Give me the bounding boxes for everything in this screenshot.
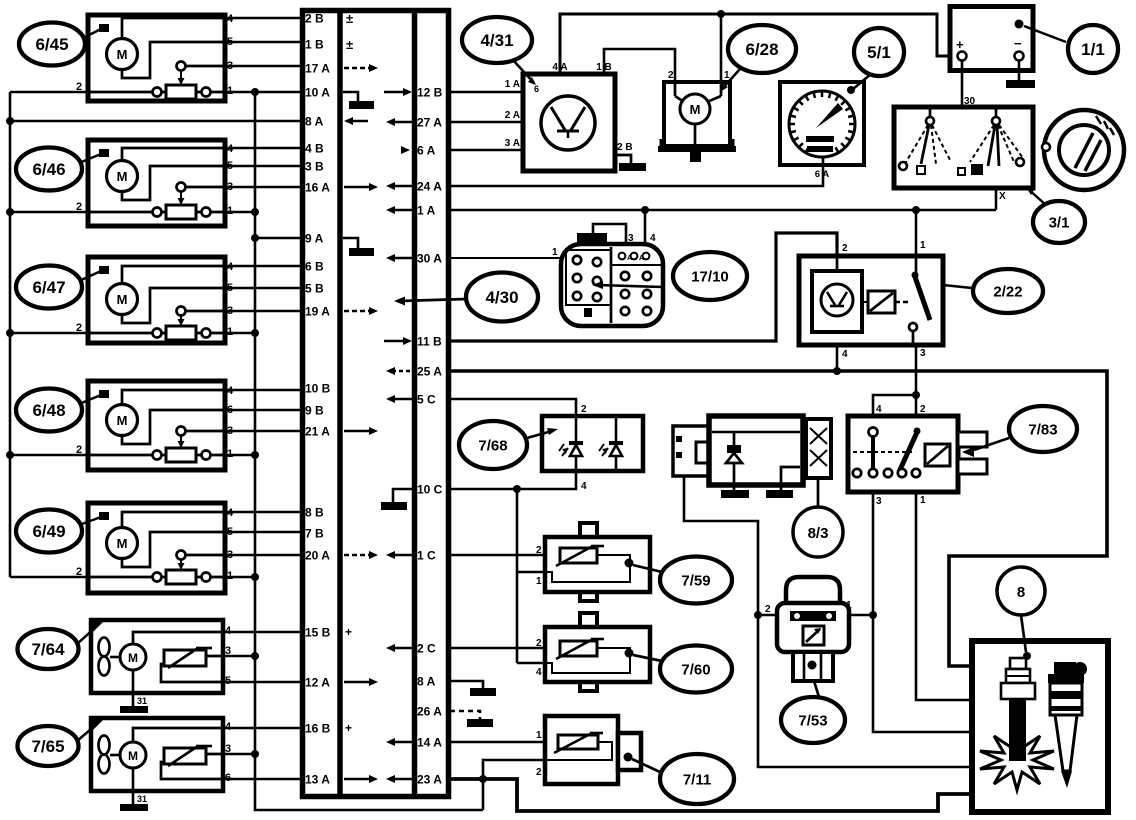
thermistor element 7/60 bbox=[560, 641, 597, 656]
component label oval 6/47 bbox=[16, 266, 82, 309]
component label oval 7/59 bbox=[660, 557, 732, 604]
pointer line 6/48 oval to box bbox=[79, 395, 101, 404]
junction dots on supply bus bbox=[6, 117, 14, 125]
component label oval 7/64 bbox=[18, 629, 79, 669]
actuator motor 6/47 box bbox=[88, 257, 225, 343]
junction 1A wire to ignition coil connector 17/10 pin 4 bbox=[641, 206, 649, 214]
ignition power stage 8/3 main box bbox=[709, 416, 803, 485]
svg-text:7/65: 7/65 bbox=[31, 737, 64, 756]
wire 6/49 pin1 to sensor-ground bus bbox=[225, 576, 255, 579]
ground symbol at ECU pin 10C bbox=[393, 489, 412, 502]
svg-text:1: 1 bbox=[552, 247, 558, 258]
17/10 inner divider bbox=[610, 247, 613, 323]
jumper 7/83 pin 4 to pin 2 feed bbox=[873, 395, 916, 416]
wire drop to 7/60 pin 4 bbox=[517, 662, 552, 665]
wire supply bus to ECU pin 8A bbox=[10, 120, 302, 123]
pointer dot 7/60 bbox=[625, 649, 634, 658]
wires 7/64 to ECU 15B / 12A and bus bbox=[223, 631, 302, 634]
component label oval 4/31 bbox=[462, 17, 532, 63]
spark plug electrode bbox=[1009, 699, 1026, 761]
svg-text:4: 4 bbox=[876, 404, 882, 415]
component label oval 6/45 bbox=[19, 23, 85, 66]
junction at knock sensor 7/53 pin 2 bbox=[754, 611, 762, 619]
motor M of 6/45 bbox=[122, 18, 225, 39]
pointer arrow 7/83 bbox=[962, 447, 974, 457]
7/53 terminal strip bbox=[790, 611, 836, 621]
inner link 7/59 bbox=[545, 555, 630, 582]
pointer arrow 4/30 into ECU bbox=[400, 299, 466, 301]
svg-text:16 A: 16 A bbox=[305, 181, 330, 195]
svg-text:8: 8 bbox=[1017, 584, 1025, 601]
svg-text:M: M bbox=[117, 292, 128, 307]
svg-text:7/68: 7/68 bbox=[478, 437, 507, 454]
wire 7/53 pins across (pin2 to pin1) bbox=[758, 614, 873, 617]
svg-text:2 B: 2 B bbox=[617, 142, 633, 153]
wire 6/46 pin2 to supply bus bbox=[10, 211, 88, 214]
potentiometer wiper of 6/48 to pin 3 bbox=[177, 427, 186, 436]
ground of 7/64 fan motor bbox=[132, 670, 135, 706]
wire 8/3 shield pin down to 7/53 pin 2 and spark box bbox=[684, 476, 972, 767]
pointer line 7/53 bbox=[814, 681, 819, 697]
svg-text:26 A: 26 A bbox=[417, 705, 442, 719]
svg-text:25 A: 25 A bbox=[417, 365, 442, 379]
svg-text:M: M bbox=[690, 102, 701, 117]
potentiometer wiper of 6/46 to pin 3 bbox=[177, 183, 186, 192]
8/3 right connector with hatch bbox=[806, 419, 831, 478]
wire 6/46 pin1 to sensor-ground bus bbox=[225, 211, 255, 214]
connector inner wall right column bbox=[412, 10, 418, 796]
svg-text:2/22: 2/22 bbox=[993, 283, 1022, 300]
svg-text:+: + bbox=[956, 37, 964, 52]
battery 1/1 bbox=[950, 7, 1033, 71]
svg-text:M: M bbox=[117, 413, 128, 428]
pointer line 8/3 oval bbox=[817, 478, 820, 507]
temperature sensor 7/11 bbox=[545, 716, 618, 784]
fan motor M of 7/65 bbox=[133, 728, 223, 742]
svg-text:6: 6 bbox=[534, 84, 539, 94]
7/83 fixed contact bbox=[869, 428, 878, 437]
svg-text:6 A: 6 A bbox=[815, 169, 830, 180]
svg-text:4/30: 4/30 bbox=[485, 288, 518, 307]
potentiometer wiper of 6/47 to pin 3 bbox=[177, 307, 186, 316]
pointer line 7/65 oval to box bbox=[77, 724, 97, 741]
idle air valve 4/31 bbox=[523, 74, 615, 171]
svg-text:A: A bbox=[639, 255, 644, 262]
ground symbol at ECU pin 10A bbox=[343, 92, 358, 101]
component label oval 6/28 bbox=[728, 25, 796, 73]
temperature sensor 7/59 bbox=[580, 523, 597, 539]
svg-text:20 A: 20 A bbox=[305, 549, 330, 563]
potentiometer of 6/48 bbox=[88, 454, 225, 457]
17/10 pointer arrow bbox=[598, 285, 663, 287]
wire ECU 23A to bottom shield rail bbox=[450, 779, 972, 811]
2/22 switch contact bbox=[915, 256, 918, 273]
svg-text:M: M bbox=[128, 749, 138, 763]
svg-text:1: 1 bbox=[536, 576, 542, 587]
7/83 coil bbox=[925, 444, 950, 466]
svg-text:2 A: 2 A bbox=[505, 110, 520, 121]
svg-text:16 B: 16 B bbox=[305, 722, 331, 736]
wire 6/45 pin1 to ECU 10A with bus junction bbox=[225, 91, 302, 94]
dashed wire ECU 26A to ground bbox=[450, 711, 480, 719]
6/48 oval pointer terminus bbox=[99, 390, 109, 398]
svg-text:7/59: 7/59 bbox=[681, 572, 710, 589]
svg-text:5/1: 5/1 bbox=[867, 43, 891, 62]
wire 6/49 pin2 to supply bus bbox=[10, 576, 88, 579]
svg-text:4: 4 bbox=[536, 667, 542, 678]
battery minus to ground bbox=[1018, 60, 1021, 80]
wire ECU 2C to temp sensor 7/60 pin 2 bbox=[450, 647, 560, 650]
wires 6/47 pins to ECU bbox=[225, 265, 302, 268]
svg-text:27 A: 27 A bbox=[417, 116, 442, 130]
wire motor minus to pin 5 of 6/45 bbox=[122, 42, 225, 78]
wire 6/47 pin2 to supply bus bbox=[10, 332, 88, 335]
svg-text:8/3: 8/3 bbox=[808, 525, 829, 542]
diode symbols in 7/68 bbox=[569, 441, 583, 445]
7/53 lower connector bbox=[793, 652, 833, 681]
pointer line 2/22 oval to box bbox=[943, 285, 972, 288]
svg-text:M: M bbox=[117, 169, 128, 184]
component label oval 7/11 bbox=[660, 754, 734, 804]
ground at ECU 26A bbox=[467, 719, 493, 727]
potentiometer of 6/45 bbox=[88, 91, 225, 94]
potentiometer of 6/46 bbox=[88, 211, 225, 214]
svg-text:2: 2 bbox=[536, 767, 542, 778]
svg-text:3 A: 3 A bbox=[505, 138, 520, 149]
svg-text:1: 1 bbox=[846, 600, 852, 611]
pointer line 1/1 oval to battery bbox=[1024, 26, 1066, 42]
6/45 oval pointer terminus bbox=[99, 24, 109, 32]
wire 6/48 pin1 to sensor-ground bus bbox=[225, 454, 255, 457]
wire ECU 24A to gauge 5/1 bbox=[450, 165, 823, 186]
component label oval 7/68 bbox=[459, 421, 527, 469]
wires 6/49 pins to ECU bbox=[225, 511, 302, 514]
pointer line 3/1 oval to box bbox=[1028, 189, 1046, 205]
svg-text:±: ± bbox=[346, 37, 353, 52]
svg-text:13 A: 13 A bbox=[305, 773, 330, 787]
wire thermistor to pin 6 of 7/65 bbox=[161, 762, 223, 779]
pointer line 6/46 oval to box bbox=[79, 154, 101, 163]
svg-text:2: 2 bbox=[920, 404, 926, 415]
ignition switch 3/1 bbox=[894, 107, 1033, 188]
6/47 oval pointer terminus bbox=[99, 266, 109, 274]
junction 25A wire to relay 2/22 pin 4 bbox=[833, 367, 841, 375]
switch wafer A bbox=[929, 107, 932, 117]
4/31 pin 2B to ground bbox=[615, 155, 631, 163]
wire ECU 27A to 4/31 pin 2A bbox=[450, 121, 523, 124]
svg-text:4 A: 4 A bbox=[552, 62, 567, 73]
component label oval 7/65 bbox=[18, 726, 79, 766]
svg-text:M: M bbox=[128, 651, 138, 665]
wire motor minus to pin 5 of 6/47 bbox=[122, 288, 225, 323]
6/46 oval pointer terminus bbox=[99, 149, 109, 157]
switch wafer B bbox=[995, 107, 998, 117]
motor M of 6/28 bbox=[680, 94, 710, 124]
wire ECU 8A (right) to ground bbox=[450, 681, 483, 688]
component label oval 7/83 bbox=[1009, 406, 1077, 452]
component label oval 17/10 bbox=[673, 252, 747, 300]
potentiometer of 6/49 bbox=[88, 576, 225, 579]
wire ECU 30A to 17/10 pin 1 bbox=[450, 257, 561, 259]
junction 1A wire to relay 2/22 pin 1 bbox=[912, 206, 920, 214]
svg-text:17/10: 17/10 bbox=[691, 268, 729, 285]
actuator motor 6/46 box bbox=[88, 140, 225, 226]
pointer line 6/45 oval to box bbox=[83, 29, 101, 38]
radiator fan + thermistor 7/65 box bbox=[91, 718, 223, 791]
wire 6/47 pin1 to sensor-ground bus bbox=[225, 332, 255, 335]
actuator motor 6/48 box bbox=[88, 381, 225, 470]
pointer dot 7/11 bbox=[624, 753, 633, 762]
17/10 bottom-left mark bbox=[584, 308, 592, 317]
2/22 relay coil bbox=[868, 291, 895, 313]
pointer line 6/49 oval to box bbox=[79, 517, 101, 525]
component label oval 7/60 bbox=[660, 646, 732, 693]
battery terminals bbox=[958, 52, 967, 61]
pointer line 6/47 oval to box bbox=[79, 271, 101, 281]
svg-text:−: − bbox=[1014, 36, 1022, 51]
label circle 8 bbox=[997, 567, 1045, 615]
potentiometer wiper of 6/45 to pin 3 bbox=[177, 62, 186, 71]
pointer line 5/1 oval to box bbox=[853, 74, 871, 89]
component label oval 6/46 bbox=[16, 148, 82, 191]
fuel pump 6/28 bbox=[664, 82, 730, 146]
svg-text:2: 2 bbox=[536, 638, 542, 649]
gauge bars 5/1 bbox=[806, 136, 834, 142]
svg-text:15 B: 15 B bbox=[305, 626, 331, 640]
component label oval 2/22 bbox=[973, 269, 1043, 313]
svg-text:7/60: 7/60 bbox=[681, 661, 710, 678]
fan motor M of 7/64 bbox=[133, 632, 223, 644]
svg-text:10 A: 10 A bbox=[305, 86, 330, 100]
svg-text:2: 2 bbox=[581, 404, 587, 415]
svg-text:1 A: 1 A bbox=[417, 204, 436, 218]
sensor supply bus (left, connects pin 2 of 6/45..6/49 and ECU 8A) bbox=[9, 92, 12, 577]
zener diode to ground in 8/3 bbox=[733, 432, 736, 445]
wire ECU 25A to ignition supply (long run to spark box) bbox=[450, 371, 1107, 666]
svg-text:3: 3 bbox=[920, 348, 926, 359]
component label oval 4/30 bbox=[466, 273, 538, 322]
spark star burst bbox=[980, 730, 1054, 790]
wire motor minus to pin 5 of 6/46 bbox=[122, 166, 225, 200]
svg-text:7/83: 7/83 bbox=[1028, 421, 1057, 438]
wires 6/45 pins to ECU bbox=[225, 17, 302, 20]
svg-text:2 B: 2 B bbox=[305, 12, 324, 26]
fan symbol of 7/65 bbox=[99, 736, 110, 755]
svg-text:10 B: 10 B bbox=[305, 382, 331, 396]
svg-text:21 A: 21 A bbox=[305, 425, 330, 439]
sensor ground bus (right of boxes) bbox=[255, 92, 483, 810]
connector inner wall left column bbox=[337, 10, 343, 796]
inner link 7/11 bbox=[545, 742, 612, 760]
thermistor element 7/11 bbox=[558, 735, 598, 749]
svg-text:2: 2 bbox=[765, 604, 771, 615]
svg-text:7/64: 7/64 bbox=[31, 640, 65, 659]
svg-text:6 A: 6 A bbox=[417, 144, 436, 158]
svg-text:3/1: 3/1 bbox=[1049, 214, 1070, 231]
actuator motor 6/49 box bbox=[88, 503, 225, 593]
component label oval 6/48 bbox=[16, 389, 82, 432]
wire ECU 1C to temp sensor 7/59 pin 2 bbox=[450, 554, 560, 557]
svg-text:24 A: 24 A bbox=[417, 180, 442, 194]
wire 6/48 pin2 to supply bus bbox=[10, 454, 88, 457]
wire ECU 6A to 4/31 pin 3A bbox=[450, 149, 523, 152]
component label oval 6/49 bbox=[16, 510, 82, 553]
svg-text:1/1: 1/1 bbox=[1081, 40, 1105, 59]
thermistor of 7/64 bbox=[164, 650, 206, 666]
wire 7/83 pin 1 down to spark box bbox=[916, 492, 972, 700]
svg-text:8 A: 8 A bbox=[417, 675, 436, 689]
svg-text:23 A: 23 A bbox=[417, 773, 442, 787]
svg-text:17 A: 17 A bbox=[305, 62, 330, 76]
junction 10C wire to sensor drop bbox=[513, 485, 521, 493]
svg-text:6/47: 6/47 bbox=[32, 278, 65, 297]
svg-text:12 B: 12 B bbox=[417, 86, 443, 100]
wire motor minus to pin 5 of 6/49 bbox=[122, 532, 225, 567]
7/83 right plug bbox=[958, 432, 987, 447]
spark plug symbol bbox=[1010, 658, 1026, 669]
component label oval 1/1 bbox=[1068, 25, 1118, 73]
pointer line 7/68 oval to box bbox=[527, 431, 552, 438]
svg-text:1: 1 bbox=[920, 240, 926, 251]
wire 7/11 pin 2 tap to 23A net bbox=[483, 760, 545, 810]
svg-text:9 B: 9 B bbox=[305, 404, 324, 418]
6/28 pump base/strainer bbox=[658, 146, 736, 152]
svg-text:6/46: 6/46 bbox=[32, 160, 65, 179]
svg-text:1 B: 1 B bbox=[305, 38, 324, 52]
svg-text:4: 4 bbox=[581, 481, 587, 492]
svg-text:11 B: 11 B bbox=[417, 335, 442, 349]
spark plugs / ignition coil box bbox=[972, 641, 1108, 812]
17/10 top bar and jumper bbox=[577, 233, 607, 242]
temperature sensor 7/60 bbox=[580, 613, 597, 629]
oval 8/3 bbox=[793, 507, 843, 557]
wire ECU 12B to 4/31 pin 1A bbox=[450, 91, 523, 94]
svg-text:30 A: 30 A bbox=[417, 252, 442, 266]
thermistor of 7/65 bbox=[164, 748, 206, 764]
actuator motor 6/45 box bbox=[88, 15, 225, 101]
wire ECU 14A to temp sensor 7/11 pin 1 bbox=[450, 741, 558, 744]
fan symbol of 7/64 bbox=[99, 638, 110, 657]
svg-text:3: 3 bbox=[876, 496, 882, 507]
svg-text:8 B: 8 B bbox=[305, 506, 324, 520]
svg-text:4 B: 4 B bbox=[305, 142, 324, 156]
svg-text:1: 1 bbox=[536, 730, 542, 741]
wires 7/65 to ECU 16B / 13A and bus bbox=[223, 727, 302, 730]
valve symbol inside 4/31 bbox=[551, 107, 565, 130]
ignition connector 17/10 housing bbox=[561, 244, 663, 326]
7/83 dashed link bbox=[853, 451, 912, 453]
thermistor element 7/59 bbox=[560, 548, 597, 563]
wire 6/45 pin2 to supply bus bbox=[10, 91, 88, 94]
svg-text:1 C: 1 C bbox=[417, 549, 436, 563]
wire ECU 5C to lambda sond 7/68 pin 2 bbox=[450, 399, 576, 416]
component label oval 5/1 bbox=[854, 28, 904, 76]
top supply rail from 4/31 pin 4A to battery plus bbox=[560, 14, 958, 74]
svg-text:6/45: 6/45 bbox=[35, 35, 68, 54]
svg-text:+: + bbox=[345, 721, 352, 735]
5/1 bottom pin 6A bbox=[822, 157, 825, 165]
ground at ECU 8A right bbox=[470, 688, 496, 696]
svg-text:7 B: 7 B bbox=[305, 527, 324, 541]
main relay 2/22 bbox=[799, 256, 943, 345]
motor M of 6/49 bbox=[122, 512, 225, 528]
oxygen sensor 7/68 bbox=[542, 416, 643, 471]
svg-text:X: X bbox=[999, 191, 1006, 202]
wire drop to 7/59 pin 1 bbox=[517, 571, 552, 574]
junction top rail to fuel pump 6/28 bbox=[717, 10, 725, 18]
svg-text:6/28: 6/28 bbox=[745, 40, 778, 59]
wire ECU 11B to relay 2/22 pin 2 bbox=[450, 233, 837, 341]
7/83 switch blade bbox=[899, 430, 918, 472]
7/64 oval pointer corner mark bbox=[91, 620, 105, 634]
wire 4/31 pin 1B to 6/28 pin 2 bbox=[604, 49, 675, 82]
wire 7/83 pin 3 down through 7/53 pin 1 to spark box bbox=[873, 492, 972, 732]
motor M of 6/48 bbox=[122, 390, 225, 405]
radiator fan + thermistor 7/64 box bbox=[91, 620, 223, 693]
svg-text:2: 2 bbox=[842, 243, 848, 254]
pointer line 4/31 oval to box bbox=[513, 60, 534, 83]
fan relay 7/83 bbox=[848, 416, 958, 492]
instrument gauge 5/1 bbox=[780, 82, 864, 165]
ECU connector 4/30 housing bbox=[303, 11, 449, 797]
svg-text:7/11: 7/11 bbox=[683, 771, 711, 788]
svg-text:6 B: 6 B bbox=[305, 260, 324, 274]
wire thermistor to pin 5 of 7/64 bbox=[161, 664, 223, 682]
svg-text:±: ± bbox=[346, 11, 353, 26]
svg-text:4: 4 bbox=[842, 349, 848, 360]
ground at 8/3 diode bbox=[721, 490, 749, 498]
pointer line 8 bbox=[1021, 615, 1026, 652]
svg-text:1: 1 bbox=[920, 495, 926, 506]
wire ground bus to ECU pin 9A bbox=[255, 237, 302, 240]
7/65 oval pointer corner mark bbox=[91, 718, 105, 732]
svg-text:2 C: 2 C bbox=[417, 642, 436, 656]
svg-text:M: M bbox=[117, 536, 128, 551]
svg-text:6/48: 6/48 bbox=[32, 401, 65, 420]
17/10 pin circles bbox=[573, 256, 581, 264]
svg-text:7/53: 7/53 bbox=[798, 712, 827, 729]
potentiometer of 6/47 bbox=[88, 332, 225, 335]
svg-text:3: 3 bbox=[628, 233, 634, 244]
component label oval 7/53 bbox=[781, 697, 845, 743]
gauge needle 5/1 bbox=[816, 103, 843, 128]
svg-text:2: 2 bbox=[668, 70, 674, 81]
ignition coil symbol bbox=[1054, 662, 1076, 674]
wires 6/48 pins to ECU bbox=[225, 389, 302, 392]
component label oval 3/1 bbox=[1033, 201, 1085, 243]
wire ECU 1A to ignition switch 3/1 terminal X bbox=[450, 209, 996, 212]
svg-text:+: + bbox=[345, 625, 352, 639]
wire battery plus terminal 30 to ignition switch 3/1 bbox=[961, 60, 964, 107]
svg-text:14 A: 14 A bbox=[417, 736, 442, 750]
7/83 bottom terminal circles bbox=[853, 469, 861, 477]
svg-text:2: 2 bbox=[536, 545, 542, 556]
svg-text:6/49: 6/49 bbox=[32, 522, 65, 541]
pointer line 6/28 oval to box bbox=[722, 69, 740, 89]
potentiometer wiper of 6/49 to pin 3 bbox=[177, 551, 186, 560]
ground symbol at ECU pin 9A bbox=[343, 238, 358, 248]
svg-text:5 B: 5 B bbox=[305, 282, 324, 296]
gauge tick marks 5/1 bbox=[806, 147, 809, 152]
wire relay 2/22 pin 3 down to relay 7/83 bbox=[915, 345, 918, 430]
svg-text:3 B: 3 B bbox=[305, 160, 324, 174]
svg-text:10 C: 10 C bbox=[417, 483, 443, 497]
svg-text:1 B: 1 B bbox=[596, 62, 612, 73]
wire motor minus to pin 6 of 6/48 bbox=[122, 410, 225, 444]
svg-text:31: 31 bbox=[137, 696, 147, 706]
svg-text:1 A: 1 A bbox=[505, 79, 520, 90]
motor M of 6/46 bbox=[122, 148, 225, 161]
